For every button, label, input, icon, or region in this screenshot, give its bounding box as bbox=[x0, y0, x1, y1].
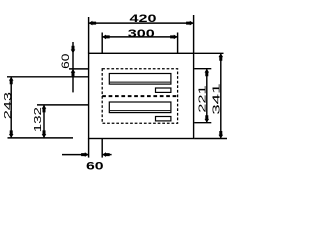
svg-text:243: 243 bbox=[2, 92, 13, 119]
svg-text:132: 132 bbox=[31, 107, 43, 132]
svg-text:60: 60 bbox=[86, 160, 104, 172]
svg-text:420: 420 bbox=[130, 12, 157, 25]
svg-text:221: 221 bbox=[196, 85, 207, 112]
svg-text:60: 60 bbox=[59, 54, 71, 69]
svg-text:341: 341 bbox=[211, 83, 222, 114]
svg-text:300: 300 bbox=[128, 26, 155, 39]
